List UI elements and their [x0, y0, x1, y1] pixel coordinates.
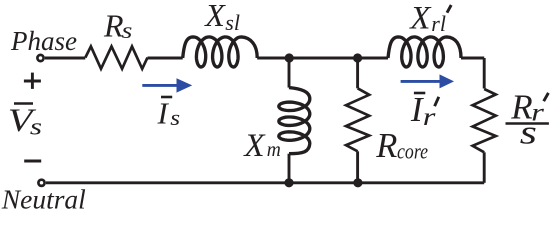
svg-text:I: I: [157, 96, 170, 131]
svg-text:X: X: [203, 0, 226, 33]
svg-text:rl: rl: [431, 11, 446, 36]
svg-text:m: m: [267, 140, 281, 161]
svg-text:s: s: [30, 114, 42, 141]
svg-text:X: X: [242, 128, 266, 164]
svg-text:R: R: [375, 127, 397, 165]
svg-text:r: r: [423, 103, 436, 131]
svg-text:s: s: [122, 18, 133, 43]
svg-text:Neutral: Neutral: [1, 184, 86, 215]
svg-text:s: s: [170, 106, 180, 130]
svg-text:core: core: [397, 138, 428, 163]
svg-text:s: s: [520, 113, 537, 151]
svg-text:X: X: [408, 0, 432, 36]
svg-text:sl: sl: [225, 10, 240, 35]
svg-text:Phase: Phase: [10, 26, 77, 56]
